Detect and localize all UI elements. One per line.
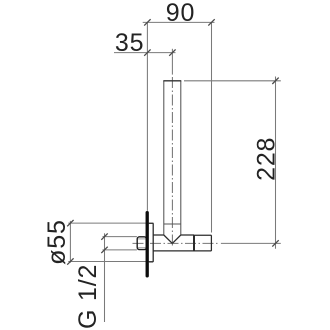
svg-text:90: 90 <box>166 0 195 27</box>
tee body bottom edge <box>153 250 211 252</box>
tee divider <box>193 235 195 251</box>
dimension 90 line <box>68 22 280 322</box>
tick marks <box>67 19 279 265</box>
outlet end <box>210 235 212 251</box>
extension line pipe axis <box>171 49 173 75</box>
centerline horizontal outlet axis <box>133 242 220 244</box>
svg-text:ø55: ø55 <box>43 219 71 264</box>
elbow taper <box>149 223 212 262</box>
extension line outlet end <box>211 22 213 232</box>
tee body top edge <box>153 234 164 236</box>
svg-text:228: 228 <box>252 137 280 181</box>
extension line thread bottom <box>103 249 137 251</box>
extension line rosette bottom <box>68 261 153 263</box>
svg-text:35: 35 <box>115 29 144 57</box>
pipe top edge <box>163 80 181 82</box>
rosette edge <box>152 223 154 262</box>
dimension G12 line <box>104 233 106 322</box>
union nut <box>137 237 146 250</box>
extension line rosette top <box>68 222 153 224</box>
dimension dia55 line <box>69 221 71 263</box>
chamfer line <box>164 223 181 225</box>
vertical pipe sides <box>164 81 181 235</box>
extension line thread top <box>103 236 137 238</box>
extension line outlet axis <box>221 242 281 244</box>
centerline vertical pipe axis <box>171 77 173 247</box>
dimension 228 line <box>275 77 277 249</box>
extension line pipe top <box>184 80 281 82</box>
dimension 35 line <box>114 52 176 54</box>
svg-text:G 1/2: G 1/2 <box>74 264 102 329</box>
wall plate thick line <box>146 213 149 276</box>
outlet top edge <box>194 234 211 236</box>
extension line wall face <box>146 22 148 211</box>
